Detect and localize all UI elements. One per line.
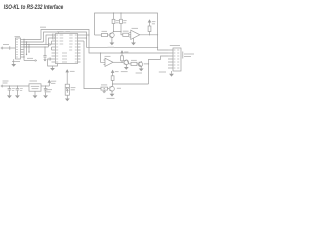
svg-text:ISO-KL to RS-232 Interface: ISO-KL to RS-232 Interface bbox=[4, 4, 64, 11]
